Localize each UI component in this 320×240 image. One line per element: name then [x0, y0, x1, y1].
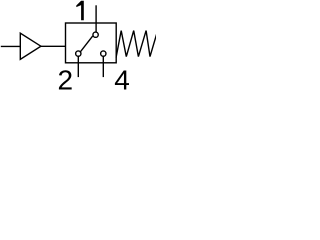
- port label 1: [76, 1, 84, 21]
- pneumatic pilot triangle: [20, 33, 41, 59]
- contact circle terminal 1: [93, 32, 98, 37]
- switch arm (closed 1-2): [80, 37, 92, 52]
- wire terminal 1 (top): [95, 6, 97, 32]
- wire terminal 4 (bottom right): [102, 56, 104, 76]
- svg-text:4: 4: [114, 65, 130, 94]
- svg-text:2: 2: [58, 65, 74, 94]
- contact circle terminal 4: [101, 51, 106, 56]
- switch box outline: [66, 23, 117, 63]
- contact circle terminal 2: [76, 51, 81, 56]
- wire left lead: [2, 45, 21, 47]
- wire terminal 2 (bottom left): [77, 56, 79, 76]
- wire pilot to box: [41, 45, 66, 47]
- return spring: [116, 31, 157, 57]
